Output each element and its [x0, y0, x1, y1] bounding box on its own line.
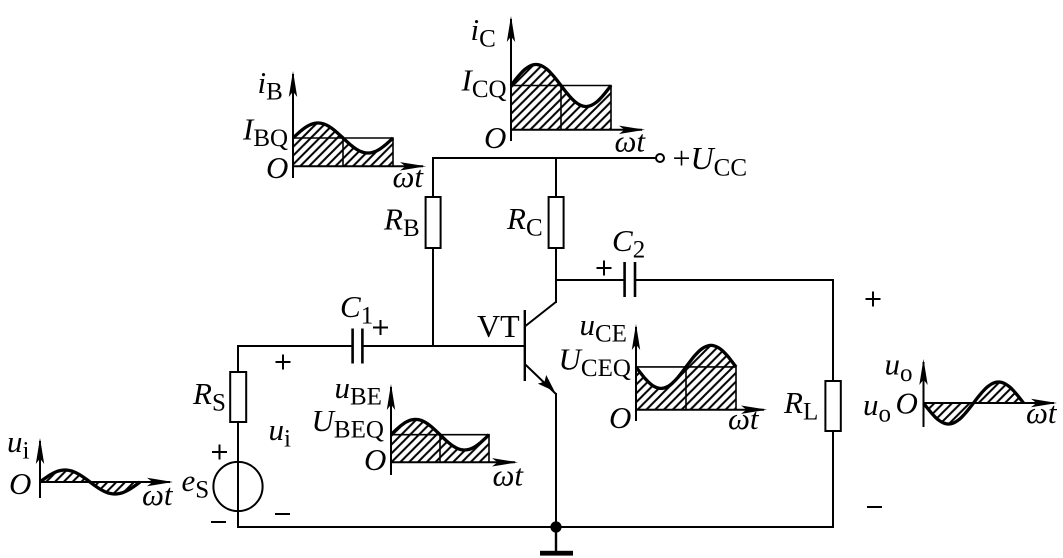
resistor RB	[426, 197, 441, 248]
resistor RS	[230, 372, 246, 422]
graph iB: half-period divider line	[342, 138, 344, 166]
polarity + of C2	[597, 261, 612, 276]
svg-text:VT: VT	[477, 308, 520, 344]
graph uo: vertical axis with arrow	[919, 359, 927, 427]
resistor RC	[549, 197, 564, 248]
graph ui: vertical axis with arrow	[36, 438, 44, 498]
wire: RC top lead	[555, 157, 557, 198]
graph uBE: sine curve	[391, 419, 489, 450]
terminal +UCC open circle	[656, 154, 664, 162]
svg-text:O: O	[9, 466, 31, 501]
graph iB: Q-level rectangle outline	[293, 138, 393, 166]
graph uBE: Q-level rectangle outline	[391, 435, 489, 463]
svg-text:ωt: ωt	[728, 401, 760, 436]
graph iB: vertical axis with arrow	[289, 71, 297, 178]
svg-text:ωt: ωt	[1026, 395, 1058, 430]
graph uBE: hatched waveform area	[391, 419, 489, 462]
wire: C1 to base	[363, 345, 525, 347]
junction dot at emitter/ground	[550, 521, 561, 532]
graph iC: sine curve	[511, 65, 611, 107]
graph iB: horizontal axis with arrow	[293, 162, 426, 170]
graph uCE: horizontal axis with arrow	[636, 406, 767, 414]
source eS circle	[213, 462, 262, 511]
graph ui: horizontal axis with arrow	[40, 478, 173, 486]
wire: RS to source and through to bottom	[237, 422, 239, 528]
transistor VT base bar	[524, 310, 526, 381]
graph uBE: horizontal axis with arrow	[391, 458, 518, 466]
polarity + of eS	[212, 445, 227, 460]
graph iC: Q-level rectangle outline	[511, 86, 611, 130]
wire: RB bottom lead to base node	[432, 248, 434, 347]
transistor VT emitter arrowhead	[538, 375, 555, 391]
graph uo: horizontal axis with arrow	[924, 399, 1058, 407]
graph uCE: hatched waveform area	[636, 345, 736, 409]
svg-text:O: O	[484, 120, 506, 155]
svg-text:O: O	[896, 386, 918, 421]
wire: emitter vertical	[555, 393, 557, 528]
graph ui: hatched sine lobes	[40, 470, 140, 494]
graph uCE: half-period divider line	[685, 367, 687, 410]
svg-text:ωt: ωt	[393, 159, 425, 194]
graph uo: hatched sine lobes	[924, 382, 1024, 424]
graph iC: half-period divider line	[560, 86, 562, 130]
wire: top supply rail	[433, 157, 656, 159]
polarity - of output	[867, 506, 882, 508]
svg-text:ωt: ωt	[142, 477, 174, 512]
graph uCE: sine curve	[636, 345, 736, 388]
transistor VT emitter lead	[525, 364, 556, 394]
svg-text:O: O	[266, 150, 288, 185]
wire: bottom ground rail	[237, 526, 833, 528]
graph uBE: vertical axis with arrow	[387, 384, 395, 475]
polarity + of ui	[276, 355, 291, 370]
polarity + of output	[866, 292, 881, 307]
graph iC: hatched waveform area	[511, 65, 611, 130]
svg-text:ωt: ωt	[615, 124, 647, 159]
graph uBE: half-period divider line	[439, 435, 441, 463]
graph uCE: vertical axis with arrow	[632, 324, 640, 421]
capacitor C1	[353, 329, 363, 364]
wire: C2 to right branch	[635, 279, 834, 281]
graph uCE: Q-level rectangle outline	[636, 367, 736, 410]
capacitor C2	[625, 262, 635, 297]
graph iB: hatched waveform area	[293, 123, 393, 166]
graph uo: sine curve	[924, 382, 1024, 424]
wire: input node to C1	[237, 345, 353, 347]
graph iC: horizontal axis with arrow	[511, 126, 645, 134]
polarity - of ui	[275, 513, 290, 515]
transistor VT collector lead	[525, 302, 557, 327]
graph iC: vertical axis with arrow	[507, 16, 515, 141]
graph iB: sine curve	[293, 123, 393, 153]
svg-text:O: O	[609, 400, 631, 435]
polarity + of C1	[373, 320, 388, 335]
svg-text:O: O	[364, 442, 386, 477]
resistor RL	[825, 381, 840, 431]
wire: RB top lead	[432, 157, 434, 198]
wire: right branch upper	[832, 280, 834, 382]
wire: left branch top	[237, 345, 239, 372]
graph ui: sine curve	[40, 470, 140, 494]
wire: RC bottom lead / collector wire	[555, 248, 557, 303]
wire: collector node to C2	[555, 279, 625, 281]
polarity - of eS	[211, 521, 226, 523]
wire: right branch lower	[832, 431, 834, 528]
svg-text:ωt: ωt	[493, 458, 525, 493]
ground symbol	[540, 527, 573, 556]
